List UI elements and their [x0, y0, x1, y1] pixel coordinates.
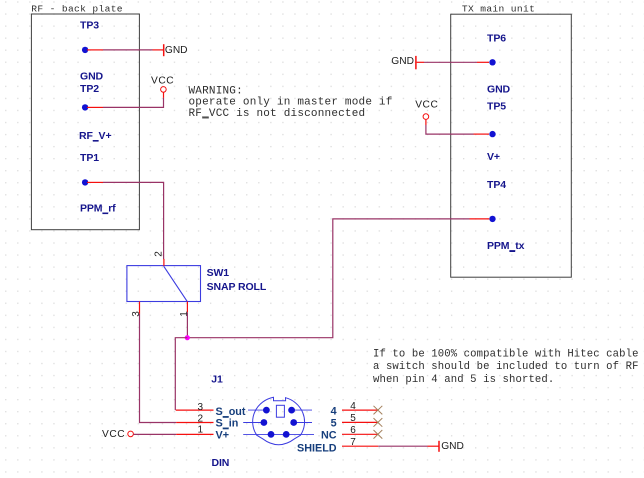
note WARNING	[189, 85, 393, 120]
wire SW1 pin3 to J1 S_in	[140, 314, 214, 423]
wire junction to J1 S_out	[175, 338, 213, 410]
power port GND top left	[164, 44, 188, 56]
svg-text:If to be 100% compatible with: If to be 100% compatible with Hitec cabl…	[373, 349, 639, 361]
svg-text:1: 1	[179, 311, 190, 317]
J1 pin 5 stub	[342, 421, 378, 423]
svg-text:VCC: VCC	[151, 75, 174, 86]
J1 pin dots	[261, 407, 298, 438]
part box TX main unit	[451, 14, 572, 277]
svg-text:GND: GND	[165, 45, 188, 56]
svg-text:4: 4	[350, 401, 356, 412]
svg-text:TP5: TP5	[487, 101, 506, 113]
svg-text:4: 4	[331, 405, 337, 417]
svg-text:5: 5	[350, 413, 356, 424]
SW1 pin 2	[163, 259, 165, 266]
svg-text:6: 6	[350, 425, 356, 436]
wire J1 pin7 to GND port	[378, 445, 439, 447]
pin dot TP2	[82, 104, 88, 110]
SW1 pin 3	[139, 302, 141, 314]
svg-text:PPM_tx: PPM_tx	[487, 240, 525, 252]
note Hitec compatibility	[373, 349, 639, 386]
no connect X pin 5	[374, 418, 383, 427]
svg-text:GND: GND	[391, 56, 414, 67]
wire TP1 to SW1 pin 2	[87, 182, 164, 259]
svg-text:TP6: TP6	[487, 32, 506, 44]
svg-text:a switch should be included to: a switch should be included to turn of R…	[373, 361, 639, 373]
svg-text:TP1: TP1	[80, 152, 99, 164]
no connect X pin 4	[374, 406, 383, 415]
power port VCC (bottom)	[102, 429, 133, 440]
svg-text:operate only in master mode if: operate only in master mode if	[189, 97, 393, 109]
power port VCC (TX)	[415, 100, 438, 120]
svg-text:3: 3	[131, 311, 142, 317]
svg-text:TP3: TP3	[80, 20, 99, 32]
svg-text:SHIELD: SHIELD	[297, 443, 337, 455]
svg-text:TP4: TP4	[487, 179, 506, 191]
no connect X pin 6	[374, 430, 383, 439]
pin dot TP4	[489, 216, 495, 222]
wire VCC port to TP5	[426, 120, 489, 135]
svg-text:RF_V+: RF_V+	[79, 130, 111, 142]
pin dot TP6	[489, 59, 495, 65]
svg-text:WARNING:: WARNING:	[189, 85, 243, 97]
svg-text:V+: V+	[487, 151, 500, 163]
svg-text:TX main unit: TX main unit	[462, 4, 535, 15]
svg-text:7: 7	[350, 437, 356, 448]
power port GND (bottom)	[439, 441, 464, 452]
svg-text:VCC: VCC	[102, 429, 125, 440]
J1 pin 7 stub	[342, 445, 378, 447]
svg-text:VCC: VCC	[415, 100, 438, 111]
power port GND (TX)	[391, 56, 416, 69]
pin dot TP1	[82, 179, 88, 185]
svg-text:TP2: TP2	[80, 83, 99, 95]
svg-text:5: 5	[331, 418, 337, 430]
J1 pin lines	[243, 410, 314, 434]
pin dot TP5	[489, 131, 495, 137]
svg-text:NC: NC	[321, 430, 337, 442]
svg-text:1: 1	[197, 425, 203, 436]
svg-text:GND: GND	[80, 70, 104, 82]
J1 pin 6 stub	[342, 433, 378, 435]
SW1 pin 1	[186, 302, 188, 313]
svg-text:GND: GND	[441, 441, 464, 452]
wire TP2 to VCC port	[87, 92, 164, 107]
junction dot	[185, 335, 190, 340]
svg-text:J1: J1	[211, 374, 223, 386]
pin dot TP3	[82, 47, 88, 53]
svg-text:RF_VCC is not disconnected: RF_VCC is not disconnected	[189, 108, 366, 120]
J1 pin 4 stub	[342, 409, 378, 411]
svg-text:GND: GND	[487, 83, 511, 95]
wire TP3 to GND port	[87, 49, 163, 51]
svg-text:PPM_rf: PPM_rf	[80, 202, 116, 214]
wire VCC to J1 V+	[134, 433, 214, 435]
svg-text:3: 3	[197, 402, 203, 413]
wire SW1 pin1 to junction	[186, 312, 188, 337]
svg-text:when pin 4 and 5 is shorted.: when pin 4 and 5 is shorted.	[373, 374, 554, 386]
power port VCC left	[151, 75, 174, 92]
svg-text:SNAP ROLL: SNAP ROLL	[207, 281, 267, 293]
connector J1 shell	[253, 397, 305, 444]
svg-text:2: 2	[154, 251, 165, 257]
wire GND port to TP6	[417, 61, 489, 63]
switch SW1 body	[127, 266, 201, 302]
svg-text:S_out: S_out	[216, 406, 246, 418]
svg-text:RF - back plate: RF - back plate	[31, 4, 123, 15]
part box RF back plate	[31, 14, 139, 230]
svg-text:S_in: S_in	[216, 418, 239, 430]
svg-text:V+: V+	[216, 430, 230, 442]
wire TP4 to junction	[187, 219, 489, 338]
svg-text:2: 2	[197, 413, 203, 424]
svg-text:DIN: DIN	[212, 457, 230, 469]
svg-text:SW1: SW1	[207, 267, 230, 279]
